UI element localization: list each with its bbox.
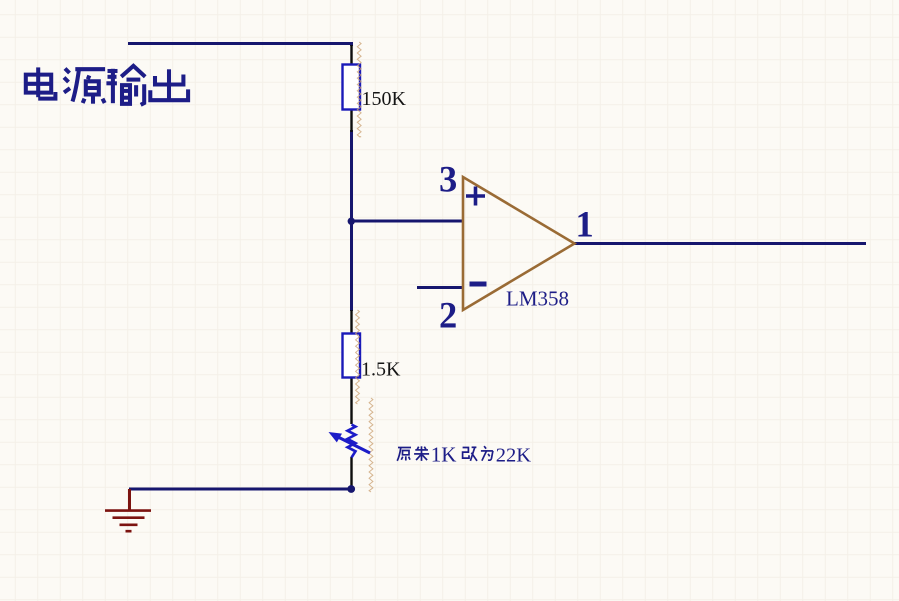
svg-text:1.5K: 1.5K (361, 359, 401, 381)
svg-text:2: 2 (439, 295, 457, 336)
svg-text:150K: 150K (362, 88, 407, 110)
svg-text:3: 3 (439, 159, 457, 200)
svg-text:1: 1 (576, 204, 594, 245)
svg-text:1K: 1K (431, 442, 457, 466)
svg-text:22K: 22K (496, 444, 532, 466)
svg-text:LM358: LM358 (506, 287, 569, 311)
